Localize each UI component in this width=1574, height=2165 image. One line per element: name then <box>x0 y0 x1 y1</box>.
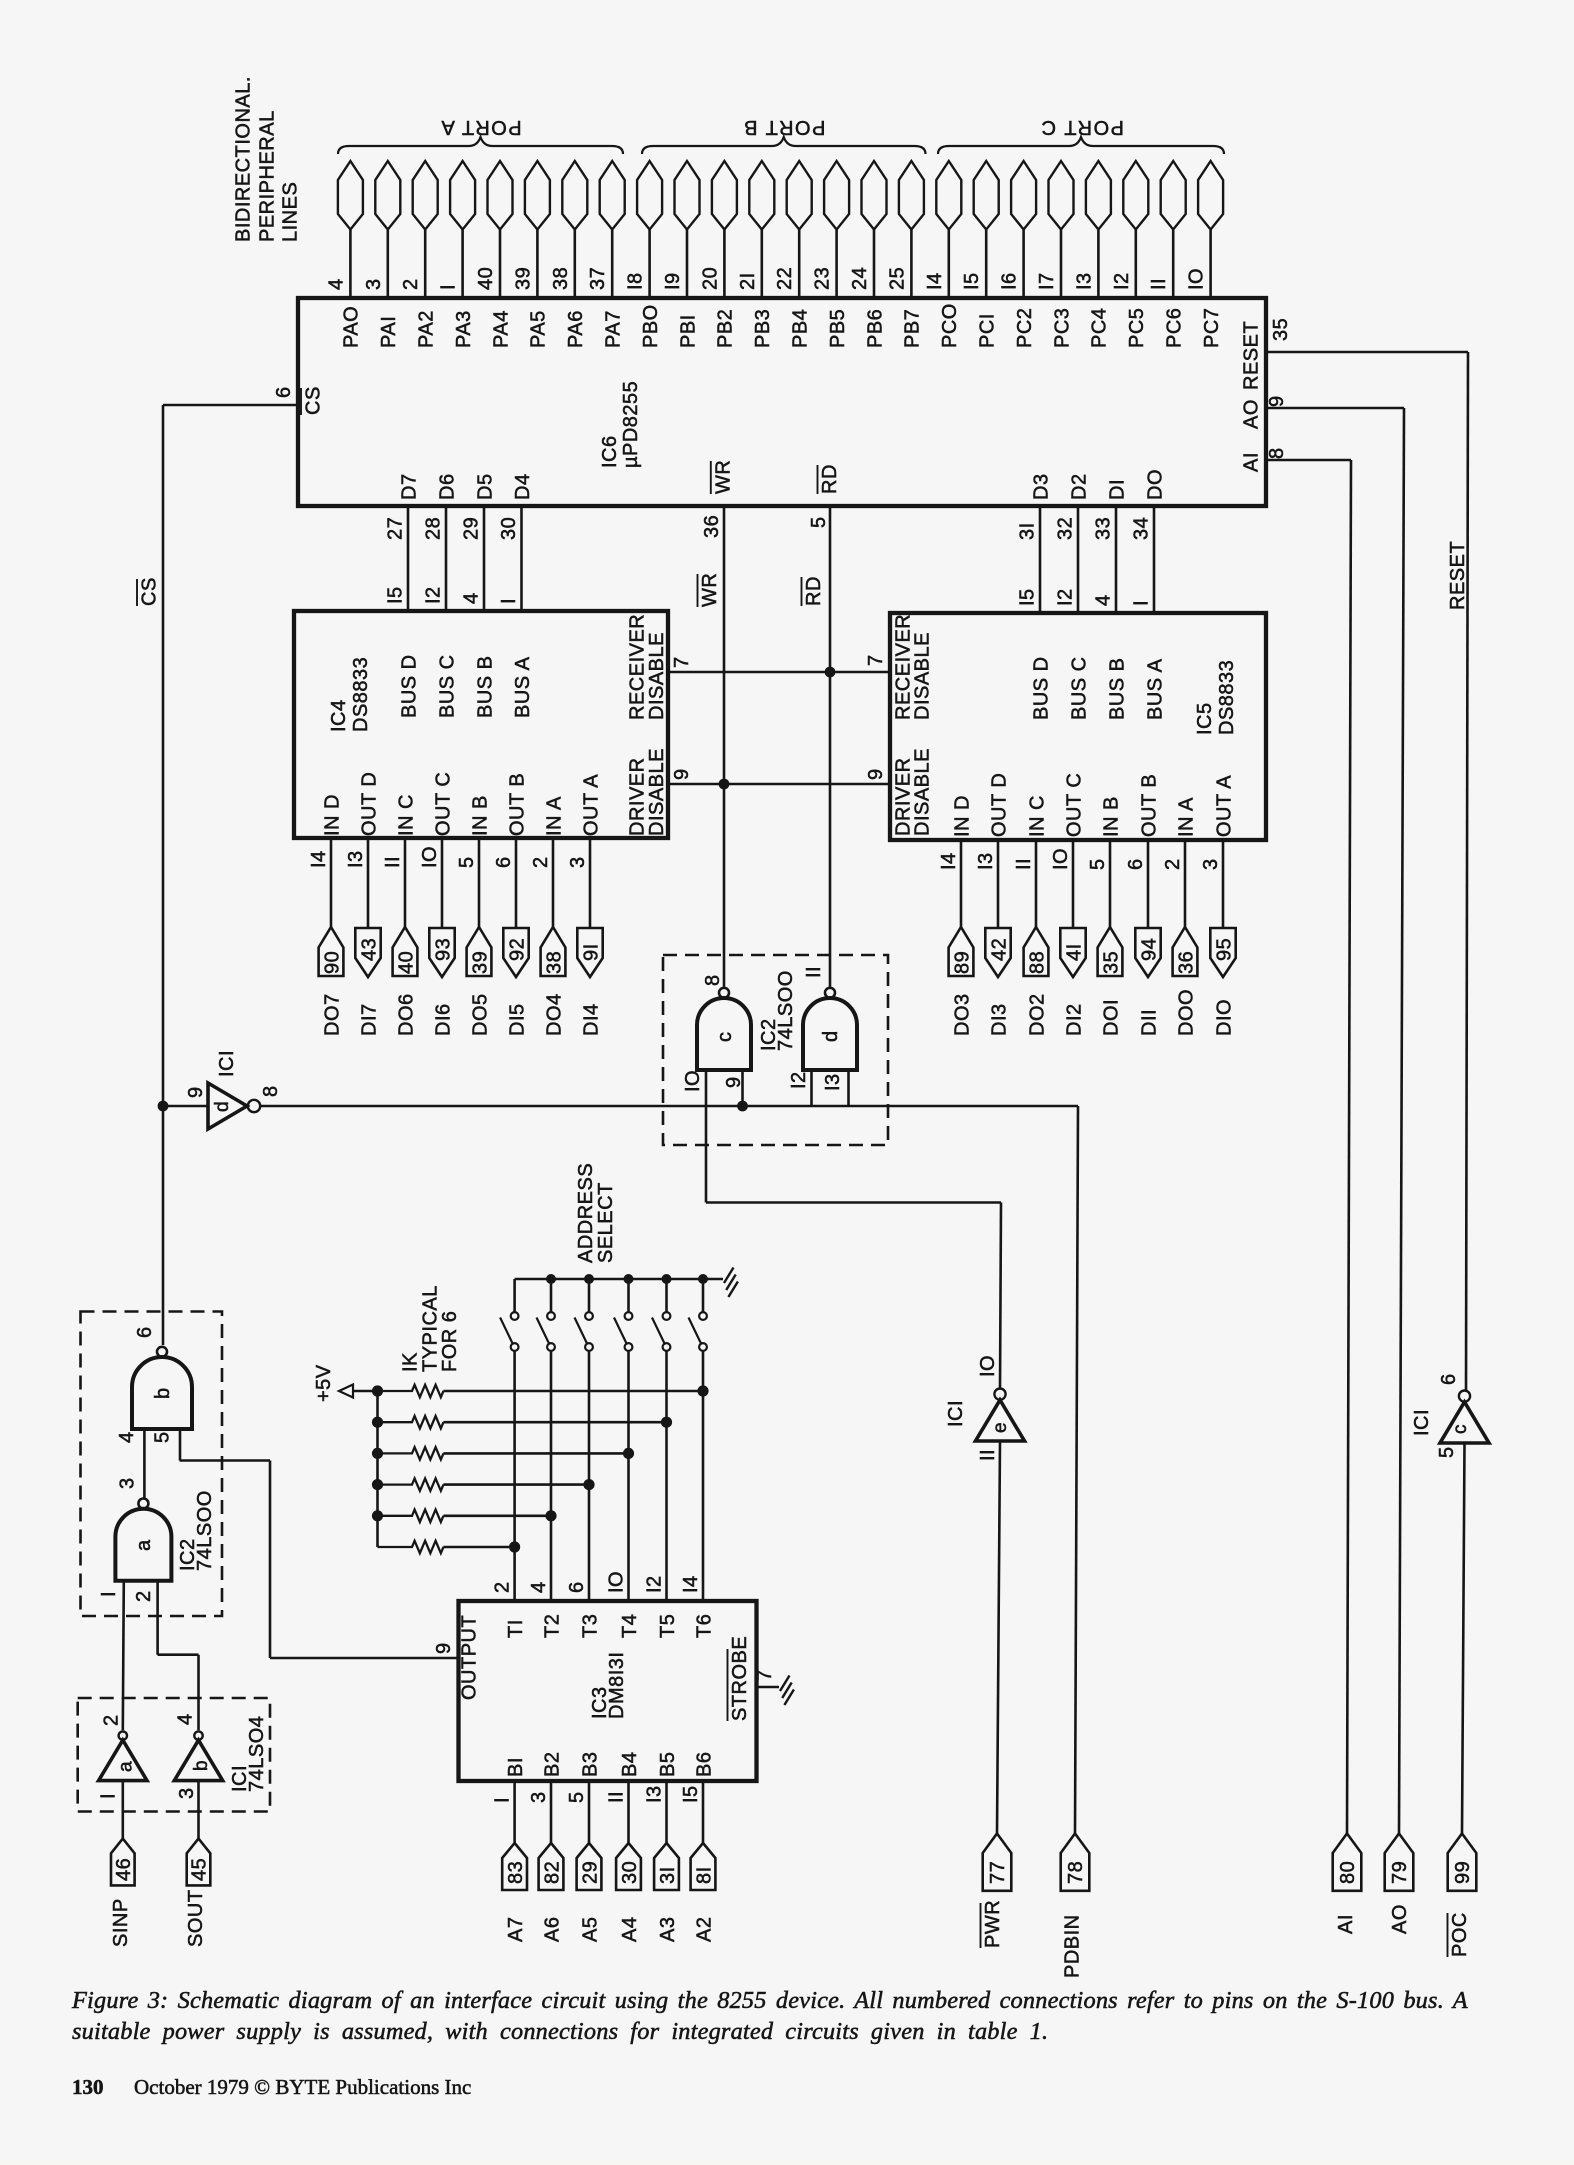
pin number 7 <box>754 1669 776 1681</box>
svg-text:4: 4 <box>325 278 347 290</box>
IC6 pin label RD <box>818 464 842 494</box>
pin number I2 <box>1111 272 1133 290</box>
junction +5V bus row 5 <box>372 1510 383 1521</box>
node RD label on wire <box>802 576 826 606</box>
svg-text:DO5: DO5 <box>469 993 491 1036</box>
svg-text:DI7: DI7 <box>358 1003 380 1036</box>
svg-text:IO: IO <box>1186 268 1208 290</box>
pin number I2 <box>644 1575 666 1593</box>
pin number 9 <box>433 1642 455 1654</box>
pin number IC5 9 <box>865 768 887 780</box>
IC1 label at IC1e <box>945 1400 967 1427</box>
pin number I8 <box>625 272 647 290</box>
pin number I <box>438 284 460 290</box>
svg-text:IN C: IN C <box>395 794 417 836</box>
balloon peripheral line PB2 <box>712 161 737 230</box>
wire PB6 to IC6 <box>873 230 876 300</box>
svg-text:PBO: PBO <box>640 304 662 348</box>
svg-text:PC6: PC6 <box>1164 308 1186 348</box>
node WR label on wire <box>698 573 722 607</box>
svg-text:I3: I3 <box>1073 272 1095 290</box>
svg-text:36: 36 <box>1175 951 1197 974</box>
svg-text:PB4: PB4 <box>790 309 812 348</box>
svg-text:D3: D3 <box>1030 473 1052 500</box>
svg-text:BUS C: BUS C <box>1068 656 1090 720</box>
wire PA4 to IC6 <box>499 230 502 300</box>
pin number 2 <box>101 1714 123 1726</box>
svg-text:PC3: PC3 <box>1051 308 1073 348</box>
svg-text:D6: D6 <box>436 473 458 500</box>
switch S2 <box>537 1279 555 1351</box>
svg-text:A4: A4 <box>619 1917 641 1942</box>
junction R5 to switch <box>545 1510 556 1521</box>
ground chassis at STROBE <box>780 1676 794 1706</box>
wire IC1e input to PWR <box>997 1441 1000 1834</box>
IC1 a/b dashed box <box>78 1698 270 1812</box>
svg-text:DO7: DO7 <box>321 993 343 1036</box>
balloon peripheral line PB4 <box>787 161 812 230</box>
balloon peripheral line PC4 <box>1086 161 1111 230</box>
svg-text:PORT C: PORT C <box>1040 116 1124 138</box>
bus connector DI6 pin 93 <box>429 928 454 977</box>
svg-text:I3: I3 <box>822 1073 844 1091</box>
IC3 pin label T2 <box>541 1614 563 1638</box>
svg-text:32: 32 <box>1055 517 1077 540</box>
svg-text:B4: B4 <box>619 1752 641 1777</box>
node DI6 label <box>432 1003 454 1036</box>
svg-text:ADDRESS: ADDRESS <box>575 1163 597 1263</box>
pin number 22 <box>774 267 796 290</box>
svg-text:PA7: PA7 <box>603 310 625 348</box>
svg-text:DISABLE: DISABLE <box>911 632 933 720</box>
svg-text:RD: RD <box>803 576 825 606</box>
pin number 10 <box>682 1070 704 1092</box>
pin number 9 <box>185 1086 207 1098</box>
node BIDIRECTIONAL PERIPHERAL LINES label <box>233 76 302 242</box>
pin number II <box>606 1791 628 1803</box>
pin number IC5 I4 <box>938 852 960 870</box>
node RESET label on wire <box>1447 541 1469 610</box>
pin number IC4 7 <box>671 656 693 668</box>
svg-text:I5: I5 <box>961 272 983 290</box>
wire IC2d input stubs <box>812 1070 849 1106</box>
wire CS stub to IC6 pin 6 <box>163 404 298 407</box>
svg-text:DI3: DI3 <box>988 1003 1010 1036</box>
svg-text:BUS D: BUS D <box>398 654 420 718</box>
pin number 11 <box>803 966 825 978</box>
junction RD to receiver disable <box>825 667 836 678</box>
wire switch S5 to IC3 T5 <box>665 1351 668 1602</box>
wire driver disable line IC4.9-IC5.9 <box>668 783 890 786</box>
svg-text:40: 40 <box>395 951 417 974</box>
junction switch rail <box>624 1274 634 1284</box>
IC6 pin label D2 <box>1068 473 1090 500</box>
junction +5V bus row 4 <box>372 1479 383 1490</box>
svg-text:PAI: PAI <box>378 316 400 348</box>
balloon peripheral line PA7 <box>600 161 625 230</box>
svg-text:I4: I4 <box>308 850 330 868</box>
svg-text:I6: I6 <box>999 272 1021 290</box>
IC6 pin label DO <box>1144 469 1166 500</box>
junction R2 to switch <box>661 1417 672 1428</box>
svg-text:30: 30 <box>498 517 520 540</box>
svg-text:PC2: PC2 <box>1014 308 1036 348</box>
wire PC7 to IC6 <box>1209 230 1212 300</box>
svg-text:8: 8 <box>702 974 724 986</box>
switch S3 <box>575 1279 593 1351</box>
node AI label <box>1335 1914 1357 1934</box>
pin number I6 <box>999 272 1021 290</box>
pin number IC5 I2 <box>1055 588 1077 606</box>
pin number I7 <box>1036 272 1058 290</box>
wire PAO to IC6 <box>349 230 352 300</box>
svg-text:PWR: PWR <box>982 1900 1004 1948</box>
resistor R6 1K <box>378 1541 515 1553</box>
IC6 pin label DI <box>1106 479 1128 500</box>
IC3 pin label T6 <box>693 1614 715 1638</box>
svg-text:IN C: IN C <box>1026 795 1048 837</box>
svg-text:PA5: PA5 <box>528 310 550 348</box>
svg-text:25: 25 <box>886 267 908 290</box>
wire switch S4 to IC3 T4 <box>627 1351 630 1602</box>
balloon peripheral line PA5 <box>525 161 550 230</box>
svg-text:LINES: LINES <box>280 182 302 242</box>
bus connector DI3 pin 42 <box>985 928 1010 977</box>
wire IC2b.5 to IC3 output <box>180 1461 459 1659</box>
switch S5 <box>652 1279 670 1351</box>
bus connector DII pin 94 <box>1135 928 1160 977</box>
pin number IC5 3 <box>1200 858 1222 870</box>
wire PB2 to IC6 <box>723 230 726 300</box>
wire IC4 OUT B to bus arrow <box>515 838 518 929</box>
svg-text:D4: D4 <box>512 473 534 500</box>
svg-text:4: 4 <box>116 1431 138 1443</box>
wire IC6 D7 to IC4 BUS <box>407 506 410 611</box>
svg-text:94: 94 <box>1138 938 1160 961</box>
IC4 pin label RECEIVER DISABLE <box>627 614 669 720</box>
svg-text:5: 5 <box>1087 858 1109 870</box>
svg-text:PB6: PB6 <box>864 309 886 348</box>
svg-text:PCO: PCO <box>939 303 961 348</box>
svg-text:4I: 4I <box>1063 943 1085 961</box>
svg-text:I8: I8 <box>625 272 647 290</box>
bus connector DI5 pin 92 <box>503 928 528 977</box>
IC3 pin label T5 <box>657 1614 679 1638</box>
bus connector DI4 pin 9I <box>577 928 602 977</box>
wire IC3 B4 to bus arrow <box>627 1781 630 1843</box>
svg-text:d: d <box>212 1101 233 1112</box>
svg-text:3: 3 <box>117 1477 139 1489</box>
svg-text:D2: D2 <box>1068 473 1090 500</box>
wire PB5 to IC6 <box>835 230 838 300</box>
svg-text:PERIPHERAL: PERIPHERAL <box>257 110 279 242</box>
junction switch rail <box>698 1274 708 1284</box>
pin number 3 <box>528 1791 550 1803</box>
wire IC6 D6 to IC4 BUS <box>445 506 448 611</box>
svg-text:Figure 3: Schematic diagram of: Figure 3: Schematic diagram of an interf… <box>71 1987 1468 2014</box>
IC4 DS8833 body <box>294 611 668 838</box>
wire port C brace <box>938 137 1224 154</box>
junction +5V bus row 2 <box>372 1417 383 1428</box>
pin number 9 <box>723 1076 745 1088</box>
wire IC3 B3 to bus arrow <box>588 1781 591 1843</box>
wire switch S2 to IC3 T2 <box>550 1351 553 1602</box>
svg-text:IN A: IN A <box>543 796 565 836</box>
bus connector DO6 pin 40 <box>393 927 418 976</box>
svg-text:DI: DI <box>1106 479 1128 500</box>
pin number IC5 6 <box>1125 858 1147 870</box>
svg-text:83: 83 <box>505 1861 527 1884</box>
node DI2 label <box>1063 1003 1085 1036</box>
wire IC3 B5 to bus arrow <box>665 1781 668 1843</box>
pin number IO <box>419 846 441 868</box>
pin number 4 <box>116 1431 138 1443</box>
svg-text:B6: B6 <box>693 1752 715 1777</box>
svg-text:I: I <box>98 1793 120 1799</box>
svg-text:suitable power supply is assum: suitable power supply is assumed, with c… <box>72 2018 1048 2045</box>
svg-text:I9: I9 <box>662 272 684 290</box>
junction WR to driver disable <box>719 779 730 790</box>
pin number IC5 I5 <box>1017 588 1039 606</box>
IC6 pin label D4 <box>512 473 534 500</box>
wire port B brace <box>642 137 926 154</box>
pin number 6 <box>273 386 295 398</box>
node DO6 label <box>395 993 417 1036</box>
wire CS to IC1d input <box>163 1105 208 1108</box>
svg-text:SELECT: SELECT <box>595 1182 617 1263</box>
wire RESET net <box>1266 352 1468 1391</box>
balloon peripheral line PA2 <box>413 161 438 230</box>
pin number I5 <box>961 272 983 290</box>
wire IC1b input to SOUT <box>197 1781 200 1839</box>
resistor R2 1K <box>378 1416 667 1428</box>
svg-text:BUS B: BUS B <box>474 655 496 718</box>
svg-text:DO6: DO6 <box>395 993 417 1036</box>
node POC label <box>1448 1912 1472 1957</box>
svg-text:DO4: DO4 <box>543 993 565 1036</box>
svg-text:IN D: IN D <box>321 794 343 836</box>
balloon peripheral line PB6 <box>862 161 887 230</box>
node DIO label <box>1213 999 1235 1036</box>
pin number 5 <box>808 516 830 528</box>
node DOO label <box>1175 989 1197 1036</box>
pin number I5 <box>680 1785 702 1803</box>
svg-text:ICI: ICI <box>216 1050 238 1077</box>
svg-text:A6: A6 <box>541 1917 563 1942</box>
svg-text:T2: T2 <box>541 1614 563 1638</box>
balloon peripheral line PA4 <box>488 161 513 230</box>
svg-text:OUT D: OUT D <box>358 772 380 836</box>
wire IC4 OUT C to bus arrow <box>441 838 444 929</box>
wire IC6 DO to IC5 BUS <box>1153 506 1156 613</box>
IC6 pin label AO <box>1241 399 1263 429</box>
node ADDRESS SELECT label <box>575 1163 617 1263</box>
svg-text:IC6: IC6 <box>599 435 621 468</box>
svg-text:PB3: PB3 <box>752 309 774 348</box>
svg-text:20: 20 <box>699 267 721 290</box>
svg-text:5: 5 <box>152 1431 174 1443</box>
svg-text:T4: T4 <box>619 1614 641 1638</box>
svg-text:IO: IO <box>1050 848 1072 870</box>
svg-text:I3: I3 <box>644 1785 666 1803</box>
wire PB7 to IC6 <box>910 230 913 300</box>
wire IC5 OUT B to bus arrow <box>1147 840 1150 929</box>
svg-text:DI4: DI4 <box>580 1003 602 1036</box>
IC6 uPD8255 body <box>298 298 1266 506</box>
IC4 pin labels BUS D-A <box>398 654 534 718</box>
IC3 pin label B2 <box>541 1752 563 1777</box>
wire IC4 OUT D to bus arrow <box>367 838 370 929</box>
svg-text:OUT C: OUT C <box>432 772 454 836</box>
svg-text:89: 89 <box>951 951 973 974</box>
svg-text:RESET: RESET <box>1241 321 1263 390</box>
pin number I4 <box>308 850 330 868</box>
svg-text:PBI: PBI <box>677 314 699 348</box>
junction switch rail <box>546 1274 556 1284</box>
bus connector DI7 pin 43 <box>355 928 380 977</box>
inverter IC1a <box>99 1731 147 1780</box>
wire IC6 DI to IC5 BUS <box>1115 506 1118 613</box>
svg-text:I3: I3 <box>345 850 367 868</box>
pin number 1 <box>98 1793 120 1799</box>
pin number 32 <box>1055 517 1077 540</box>
svg-text:7: 7 <box>754 1669 776 1681</box>
pin number 4 <box>528 1581 550 1593</box>
pin number IC4 I <box>498 598 520 604</box>
svg-text:DIO: DIO <box>1213 999 1235 1036</box>
svg-text:a: a <box>133 1539 155 1551</box>
wire PA2 to IC6 <box>424 230 427 300</box>
pin number IC5 II <box>1013 858 1035 870</box>
svg-text:34: 34 <box>1131 517 1153 540</box>
wire PC3 to IC6 <box>1060 230 1063 300</box>
wire PA7 to IC6 <box>611 230 614 300</box>
svg-text:SOUT: SOUT <box>185 1889 207 1947</box>
bus connector DIO pin 95 <box>1210 928 1235 977</box>
wire IC6 D5 to IC4 BUS <box>483 506 486 611</box>
svg-text:D5: D5 <box>474 473 496 500</box>
IC6 port pin labels PA0-PC7 <box>341 303 1223 348</box>
pin number 6 <box>493 856 515 868</box>
IC3 DM8131 body <box>459 1601 757 1781</box>
bus connector POC pin 99 <box>1448 1834 1477 1891</box>
svg-text:SINP: SINP <box>110 1898 132 1947</box>
pin number 9 <box>1266 395 1288 407</box>
IC3 pin label B6 <box>693 1752 715 1777</box>
svg-text:3I: 3I <box>657 1866 679 1884</box>
wire IC2c.10 to IC1e output <box>706 1203 1001 1389</box>
bus connector A5 pin 29 <box>577 1843 602 1890</box>
balloon peripheral line PBI <box>675 161 700 230</box>
bus connector DOI pin 35 <box>1098 927 1123 976</box>
svg-text:DOI: DOI <box>1100 999 1122 1036</box>
pin number I3 <box>1073 272 1095 290</box>
node DO2 label <box>1026 993 1048 1036</box>
pin number 23 <box>812 267 834 290</box>
junction R4 to switch <box>583 1479 594 1490</box>
svg-text:5: 5 <box>566 1791 588 1803</box>
svg-text:PA3: PA3 <box>453 310 475 348</box>
svg-text:I4: I4 <box>938 852 960 870</box>
pin number 11 <box>977 1449 999 1461</box>
node DI5 label <box>506 1003 528 1036</box>
pin number IC4 I5 <box>385 586 407 604</box>
svg-text:4: 4 <box>461 592 483 604</box>
wire AO net <box>1266 408 1404 1834</box>
svg-text:I5: I5 <box>385 586 407 604</box>
svg-text:4: 4 <box>1093 594 1115 606</box>
svg-text:38: 38 <box>550 267 572 290</box>
IC6 pin label AI <box>1241 452 1263 472</box>
wire IC5 IN B to bus arrow <box>1109 840 1112 927</box>
pin number 5 <box>1436 1446 1458 1458</box>
svg-text:II: II <box>803 966 825 978</box>
svg-text:I2: I2 <box>644 1575 666 1593</box>
IC6 pin label D7 <box>398 473 420 500</box>
wire IC5 OUT C to bus arrow <box>1072 840 1075 929</box>
svg-text:3: 3 <box>567 856 589 868</box>
svg-text:DS8833: DS8833 <box>1216 660 1238 735</box>
svg-text:AO: AO <box>1389 1904 1411 1934</box>
pin number IC5 2 <box>1162 858 1184 870</box>
pin number 28 <box>423 517 445 540</box>
svg-text:6: 6 <box>566 1581 588 1593</box>
wire IC2a pin1 to IC1a <box>123 1581 124 1731</box>
svg-text:BUS A: BUS A <box>512 656 534 718</box>
wire CS net vertical <box>162 405 165 1345</box>
pin number 30 <box>498 517 520 540</box>
pin number IC5 I3 <box>975 852 997 870</box>
pin number I4 <box>924 272 946 290</box>
pin number 37 <box>587 267 609 290</box>
pin number 3 <box>117 1477 139 1489</box>
value label 1K TYPICAL FOR 6 <box>400 1285 462 1372</box>
svg-text:3: 3 <box>528 1791 550 1803</box>
balloon peripheral line PB7 <box>899 161 924 230</box>
bus connector A2 pin 8I <box>691 1843 716 1890</box>
svg-text:I3: I3 <box>975 852 997 870</box>
balloon peripheral line PA3 <box>450 161 475 230</box>
IC6 pin label D6 <box>436 473 458 500</box>
caption figure 3 <box>71 1987 1468 2045</box>
svg-text:DI2: DI2 <box>1063 1003 1085 1036</box>
svg-text:9I: 9I <box>580 943 602 961</box>
pin number 40 <box>475 267 497 290</box>
svg-text:PCI: PCI <box>977 313 999 348</box>
svg-text:6: 6 <box>1125 858 1147 870</box>
wire STROBE to ground <box>757 1686 779 1689</box>
svg-text:22: 22 <box>774 267 796 290</box>
svg-text:AO: AO <box>1241 399 1263 429</box>
IC3 pin label T4 <box>619 1614 641 1638</box>
svg-text:I2: I2 <box>1111 272 1133 290</box>
junction CS to IC1d <box>158 1101 169 1112</box>
IC5 pin labels IN/OUT <box>951 773 1235 837</box>
balloon peripheral line PAI <box>375 161 400 230</box>
svg-text:I: I <box>438 284 460 290</box>
resistor R5 1K <box>378 1510 552 1522</box>
pin number 34 <box>1131 517 1153 540</box>
bus connector A4 pin 30 <box>616 1843 641 1890</box>
balloon peripheral line PC7 <box>1198 161 1223 230</box>
wire PCI to IC6 <box>985 230 988 300</box>
resistor R3 1K <box>378 1447 629 1459</box>
svg-text:42: 42 <box>988 938 1010 961</box>
svg-text:PAO: PAO <box>341 306 363 348</box>
pin number 13 <box>822 1073 844 1091</box>
wire PBI to IC6 <box>686 230 689 300</box>
balloon peripheral line PBO <box>637 161 662 230</box>
